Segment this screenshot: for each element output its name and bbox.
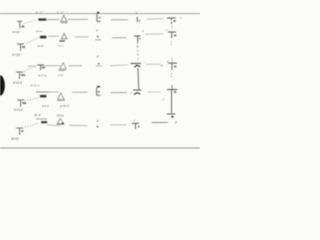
svg-text:4′×10⁻′: 4′×10⁻′ xyxy=(12,53,22,57)
source V2 xyxy=(17,44,25,51)
svg-text:4′×4.4′: 4′×4.4′ xyxy=(13,81,23,85)
box top edge above R2 xyxy=(36,30,43,32)
svg-text:M■: M■ xyxy=(22,101,26,105)
amplifier U4 xyxy=(57,93,65,101)
box top edge above R5 xyxy=(36,118,47,120)
amplifier U5 xyxy=(57,118,64,124)
capacitor C6 on summing rail xyxy=(167,18,176,26)
resistor block R2 xyxy=(40,36,46,39)
wire R5 to U5 xyxy=(47,124,60,127)
label y above C1 xyxy=(136,10,138,14)
svg-text:4×10′⁻: 4×10′⁻ xyxy=(12,30,22,34)
svg-text:4′×4.4′: 4′×4.4′ xyxy=(14,108,24,112)
wire U4 to node N4 xyxy=(72,91,88,93)
junction J3 on mid rail xyxy=(131,61,146,82)
amplifier U1 xyxy=(61,15,68,22)
label under U3 xyxy=(58,73,64,77)
wire N5 to C5 faint xyxy=(110,124,127,126)
wire V1 to R1 xyxy=(24,20,37,24)
amplifier U3 xyxy=(58,63,66,71)
output label xyxy=(175,121,178,125)
wire R4 to U4 xyxy=(49,91,59,93)
capacitor C1 xyxy=(137,17,141,23)
node label N2 xyxy=(95,29,101,40)
svg-text:4′×4′·2: 4′×4′·2 xyxy=(30,83,39,87)
capacitor C2 xyxy=(134,29,144,47)
svg-text:м: м xyxy=(130,91,132,95)
wire U1 to node N1 xyxy=(68,18,88,20)
label above R4 xyxy=(30,83,39,87)
label under V5 xyxy=(11,137,19,141)
svg-text:r′: r′ xyxy=(97,119,99,123)
svg-text:м·Л·м: м·Л·м xyxy=(38,74,46,78)
label under U4 xyxy=(42,104,68,108)
box top edge above R4 xyxy=(36,91,49,93)
coupling element T3 xyxy=(37,65,45,70)
wire R1 to U1 xyxy=(47,19,60,21)
svg-text:.d: .d xyxy=(98,16,101,20)
wire J3 to C8 faint xyxy=(146,63,160,65)
svg-text:(ІІ: (ІІ xyxy=(21,129,24,133)
wire C1 to C6 faint xyxy=(147,18,163,21)
svg-text:ІI: ІI xyxy=(138,124,140,128)
wire V3 to row3 xyxy=(24,67,34,71)
capacitor C7 on summing rail xyxy=(166,26,177,46)
wire N4 to C4 xyxy=(111,92,127,94)
wire left of T3 xyxy=(28,65,37,67)
svg-text:r′: r′ xyxy=(96,29,98,33)
svg-text:4×4′′: 4×4′′ xyxy=(37,44,44,48)
wire V4 to R4 xyxy=(25,98,39,102)
capacitor C8 on summing rail xyxy=(160,58,177,78)
resistor block R5 xyxy=(41,121,47,123)
wire C2 to C7 faint xyxy=(145,33,163,36)
label above R1 xyxy=(36,10,44,14)
wire V2 to R2 xyxy=(27,37,40,43)
label above U5 xyxy=(57,104,70,117)
node label N5 xyxy=(96,119,99,129)
svg-text:M′.м′: M′.м′ xyxy=(34,113,41,117)
node bracket N4 xyxy=(97,86,101,95)
node bracket N1 xyxy=(97,12,101,22)
svg-text:MІ: MІ xyxy=(21,25,24,29)
bottom border rule xyxy=(0,147,200,149)
source V4 xyxy=(17,100,26,107)
wire C4 to C9 faint xyxy=(148,91,161,93)
label under V1 xyxy=(12,30,22,34)
wire U3 to node N3 xyxy=(69,65,82,67)
wire C5 to output xyxy=(152,121,168,123)
svg-text:І′І·2′: І′І·2′ xyxy=(64,104,70,108)
svg-text:◄: ◄ xyxy=(96,125,99,129)
svg-text:M′І′м: M′І′м xyxy=(57,113,64,117)
resistor block R1 xyxy=(38,18,46,20)
svg-text:M′×Б′: M′×Б′ xyxy=(11,137,19,141)
wire U2 to node N2 xyxy=(75,36,89,38)
label under V4 xyxy=(14,108,24,112)
label under V3 xyxy=(13,81,23,85)
svg-text:MІ: MІ xyxy=(42,66,45,70)
wire T3 to U3 xyxy=(45,65,61,67)
svg-text:r·i·r′: r·i·r′ xyxy=(58,73,64,77)
amplifier U2 xyxy=(59,33,67,41)
svg-text:4′·2′′: 4′·2′′ xyxy=(57,11,65,15)
svg-text:MІ: MІ xyxy=(22,45,25,49)
label above U1 xyxy=(57,11,65,15)
wire N1 to C1 xyxy=(111,19,128,21)
source V5 xyxy=(16,128,24,135)
svg-text:r′: r′ xyxy=(97,55,99,59)
ground on summing rail xyxy=(167,114,175,118)
svg-text:r′′: r′′ xyxy=(175,121,178,125)
wire U5 to node N5 xyxy=(69,124,88,126)
source V1 xyxy=(17,21,25,28)
svg-text:4′4.4′: 4′4.4′ xyxy=(42,104,50,108)
label plus right of C6 xyxy=(180,16,182,20)
svg-text:м: м xyxy=(98,90,100,94)
wire N2 to C2 xyxy=(112,37,127,39)
label above R5 xyxy=(34,113,41,117)
scan punch-hole mark left edge xyxy=(0,75,5,95)
capacitor C4 on mid rail xyxy=(130,82,141,95)
svg-text:u: u xyxy=(139,18,141,22)
label under V2 xyxy=(12,53,22,57)
node label N3 xyxy=(96,55,102,66)
label under R2 xyxy=(37,44,44,48)
source V3 xyxy=(16,72,25,79)
wire V5 to R5 xyxy=(25,123,40,127)
mid rail dotted above J3 xyxy=(137,43,139,62)
svg-text:н: н xyxy=(139,36,141,40)
label under U2 xyxy=(58,44,64,48)
capacitor C5 xyxy=(132,119,140,129)
label under T3 xyxy=(38,74,46,78)
top border rule xyxy=(0,13,200,15)
svg-text:4′·2′′: 4′·2′′ xyxy=(36,10,44,14)
svg-text:MБ: MБ xyxy=(21,73,25,77)
capacitor C9 on summing rail xyxy=(163,85,177,113)
wire R2 to U2 xyxy=(48,35,59,37)
wire N3 to junction faint xyxy=(110,65,128,66)
resistor block R4 xyxy=(40,95,46,98)
